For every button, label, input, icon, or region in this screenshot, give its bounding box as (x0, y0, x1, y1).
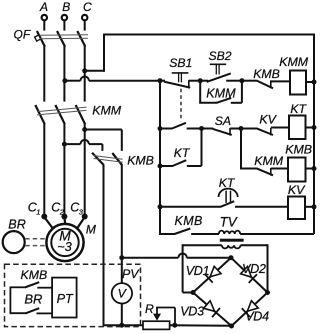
breaker QF release square (35, 35, 41, 41)
node PV bottom junction (119, 323, 124, 328)
wire C terminal stub (84, 20, 86, 30)
node row4 left junction (158, 204, 163, 209)
wire row5 to TV (191, 233, 219, 235)
breaker QF pole 1 blade (37, 31, 45, 47)
wire row2 left (160, 128, 172, 130)
svg-text:KV: KV (288, 183, 306, 197)
terminal C (82, 15, 87, 20)
wire SA left (202, 128, 214, 130)
node motor terminal C3 (82, 214, 88, 220)
motor M inner circle (51, 229, 78, 256)
node bridge bottom vertex (229, 324, 234, 329)
resistor R wiper arrow (156, 307, 158, 315)
wire phase B (KMM to motor) (63, 124, 65, 216)
wire row4 left (160, 206, 221, 208)
node B brake tap (62, 142, 67, 147)
wire PV top (121, 258, 123, 284)
svg-text:KMB: KMB (21, 268, 48, 282)
svg-text:BR: BR (8, 217, 26, 231)
svg-text:KMM: KMM (206, 86, 236, 100)
svg-text:VD3: VD3 (180, 305, 204, 319)
wire left rail (159, 80, 161, 234)
resistor R body (143, 321, 170, 329)
contact KMB lower blade (25, 308, 39, 313)
wire phase A (KMM to motor) (43, 124, 45, 216)
node SB2 right junction (239, 78, 244, 83)
wire row3 right (187, 165, 202, 167)
transformer TV secondary winding (222, 245, 241, 248)
contactor KMB right pole blade (112, 153, 122, 165)
wire bridge frame right (267, 244, 269, 292)
switch SA blade (213, 129, 232, 135)
wire bridge edge T-R (231, 258, 268, 293)
node motor terminal C1 (41, 214, 47, 220)
wire B terminal stub (63, 20, 65, 30)
wire KV coil to right rail (305, 206, 314, 208)
node C control tap (82, 68, 87, 73)
svg-text:KMM: KMM (254, 154, 284, 168)
wire DC plus (to hop) (122, 257, 179, 259)
wire SA right (230, 128, 241, 130)
wire bridge edge R-B (232, 293, 268, 327)
svg-text:A: A (39, 0, 48, 14)
breaker QF pole 3 blade (77, 31, 85, 47)
wire row5 right (240, 233, 314, 235)
pushbutton SB1 actuator (172, 72, 189, 74)
dashed link SB1 to lower contact (180, 89, 182, 122)
node wiper junction (172, 323, 177, 328)
coil KV (288, 197, 305, 220)
pushbutton SB1 blade (164, 82, 190, 88)
coil KMM (290, 71, 306, 95)
contact KMM NC blade (257, 169, 273, 176)
diode VD3 (204, 301, 215, 312)
wire A terminal stub (43, 20, 45, 30)
diode VD2 (241, 267, 252, 278)
node SB2 left junction (198, 78, 203, 83)
contact KT NO blade (173, 160, 187, 166)
svg-text:KMB: KMB (175, 214, 203, 228)
contact KT time blade (221, 201, 235, 207)
wire to KMM NC contact (240, 168, 258, 170)
terminal B (62, 15, 67, 20)
wire secondary right (240, 244, 267, 246)
wire C tap to KMB right pole (85, 129, 122, 131)
wire row1 continues (89, 80, 160, 82)
svg-text:VD4: VD4 (245, 309, 269, 323)
svg-text:QF: QF (14, 28, 31, 42)
node right rail row1 (312, 80, 317, 85)
contact KMB upper blade (25, 282, 40, 287)
contactor KMM pole 2 blade (55, 105, 64, 124)
motor M outer circle (46, 224, 83, 261)
contact KMB NO blade (175, 229, 191, 235)
svg-text:~3: ~3 (57, 239, 72, 254)
coil KT (289, 116, 306, 140)
voltmeter PV circle (112, 283, 132, 303)
wire bridge edge L-B (193, 293, 232, 327)
wire upper stub to PT (37, 287, 52, 289)
node bridge left vertex (191, 290, 196, 295)
wire phase C (KMM to motor) (84, 124, 86, 216)
pushbutton SB2 wire left (200, 80, 208, 82)
wire SB2 to KMB contact (242, 80, 258, 82)
wire KMB contact to KMM coil (271, 80, 290, 82)
wire DC minus bottom (104, 324, 144, 326)
wire phase B (QF to KMM) (63, 46, 65, 102)
dashed enclosure box (5, 264, 141, 326)
svg-text:KMM: KMM (279, 55, 309, 69)
wire KMB right pole down (121, 164, 123, 257)
svg-text:C: C (83, 0, 92, 14)
wire KMM contact to KMB coil (271, 168, 288, 170)
wire motor lead 1 (44, 217, 53, 230)
breaker QF pole 2 blade (57, 31, 65, 47)
svg-text:VD2: VD2 (242, 262, 266, 276)
pushbutton SB1 fixed tick (188, 80, 190, 88)
svg-text:TV: TV (220, 215, 238, 230)
wire B tap toward KMB (hop at C) (64, 143, 80, 145)
node B control tap (62, 78, 67, 83)
svg-text:SA: SA (215, 114, 231, 128)
svg-text:KMB: KMB (285, 142, 312, 156)
wire phase C (QF to KMM) (84, 46, 86, 102)
node row2 split junction (239, 126, 244, 131)
wire hop over bridge frame (178, 254, 186, 258)
diode VD1 (210, 266, 221, 277)
coil KMB (288, 158, 306, 182)
contact SB1 linked blade (172, 123, 186, 129)
contact KT time-delay stems (225, 191, 227, 203)
node row1 left junction (158, 78, 163, 83)
svg-text:PT: PT (57, 292, 74, 306)
wire SB1 to SB2 (189, 80, 200, 82)
wire bridge edge T-L (193, 258, 231, 293)
svg-text:SB1: SB1 (169, 56, 192, 70)
svg-text:KMB: KMB (253, 67, 280, 81)
wire PV bottom (121, 303, 123, 325)
svg-text:SB2: SB2 (209, 49, 232, 63)
wire KT coil to right rail (306, 127, 315, 129)
shaft coupling dashes (25, 238, 46, 240)
wire motor lead 3 (76, 217, 84, 230)
diode VD4 (247, 301, 258, 312)
svg-text:M: M (86, 223, 96, 237)
node right rail row2 (312, 125, 317, 130)
node right rail row2b (312, 166, 317, 171)
wire wiper to bottom junction (156, 307, 175, 309)
svg-text:VD1: VD1 (186, 264, 210, 278)
tachogenerator BR circle (3, 231, 25, 253)
wire hop over phase C (row1) (81, 76, 89, 80)
wire to KV contact (241, 128, 258, 130)
wire row3 left (160, 165, 173, 167)
pushbutton SB1 wire left (160, 80, 165, 82)
device PT box (52, 278, 77, 318)
contactor KMM pole 1 blade (35, 105, 44, 124)
contact KMM aux blade (217, 98, 232, 103)
contact KV NC blade (257, 129, 273, 135)
svg-text:KT: KT (290, 102, 307, 116)
node bridge top vertex (229, 255, 234, 260)
contactor KMB linkage (94, 156, 123, 160)
contact KMB NC blade (257, 81, 273, 88)
svg-text:B: B (62, 0, 70, 14)
wire R to bridge bottom (170, 324, 232, 327)
wire right rail (313, 34, 315, 235)
contactor KMB left pole blade (92, 153, 104, 165)
node motor terminal C2 (61, 214, 67, 220)
contactor KMM linkage (37, 107, 87, 112)
wire KMB left pole down (103, 164, 105, 326)
wire row5 left (159, 233, 175, 235)
wire DC plus (to bridge top) (187, 257, 231, 259)
wire motor lead 2 (63, 217, 66, 224)
wire lower stub to PT (37, 312, 53, 314)
node row3 left junction (158, 164, 163, 169)
node row2 junction (KT bypass) (199, 126, 204, 131)
wire KMM coil to right rail (306, 81, 314, 83)
terminal A (42, 15, 47, 20)
node bridge right vertex (265, 290, 270, 295)
node row2 left junction (158, 126, 163, 131)
wire B tap to KMB left pole (89, 143, 103, 145)
node PV top junction (119, 255, 124, 260)
wire row1 from B (with hop at C) (65, 80, 81, 82)
pushbutton SB2 blade (207, 73, 231, 82)
contactor KMM pole 3 blade (76, 105, 85, 124)
pushbutton SB2 wire right (226, 80, 242, 82)
switch SA fixed tick (229, 128, 231, 136)
breaker QF linkage (40, 34, 89, 37)
wire KV contact to KT coil (271, 127, 289, 129)
node C brake tap (82, 127, 87, 132)
node right rail row4 (312, 204, 317, 209)
wire hop over phase C (brake tap) (81, 140, 89, 144)
wire KMB coil to right rail (306, 168, 315, 170)
contact KMB NC fixed tick (270, 80, 272, 88)
svg-text:R: R (145, 302, 154, 316)
contact KV NC fixed tick (270, 128, 272, 135)
wire secondary left (183, 244, 222, 246)
wire bridge frame left (182, 244, 184, 292)
wire KMM aux branch right (231, 102, 242, 104)
transformer TV primary winding (219, 231, 240, 234)
transformer TV core (220, 239, 244, 242)
wire KMM aux branch left (199, 81, 201, 103)
wire BR bracket (9, 287, 11, 315)
svg-text:KT: KT (174, 146, 191, 160)
wire phase A (QF to KMM) (43, 46, 45, 102)
svg-text:KMM: KMM (92, 104, 122, 118)
wire row4 right (235, 206, 288, 208)
wire split down (240, 129, 242, 169)
svg-text:BR: BR (24, 292, 42, 307)
svg-text:KV: KV (259, 112, 277, 126)
svg-text:KMB: KMB (127, 153, 154, 167)
svg-text:1: 1 (36, 207, 40, 216)
contact KMM NC fixed tick (270, 168, 272, 176)
wire row2 mid (187, 128, 202, 130)
contact KT time-delay arc (219, 189, 238, 197)
wire C tap to top rail (85, 70, 104, 72)
svg-text:PV: PV (122, 267, 140, 281)
pushbutton SB2 actuator (210, 63, 226, 65)
